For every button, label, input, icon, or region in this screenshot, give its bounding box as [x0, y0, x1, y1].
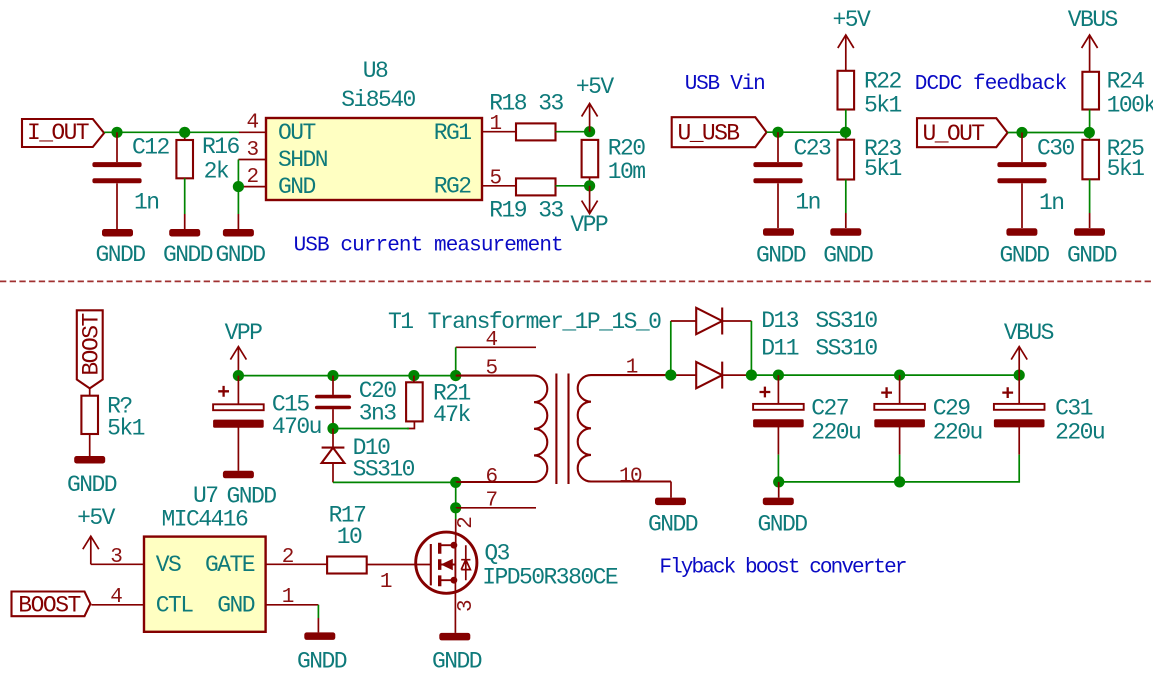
junction D11/D13 cathodes	[746, 370, 757, 381]
label I_OUT	[22, 119, 104, 147]
svg-text:GNDD: GNDD	[823, 242, 873, 268]
svg-text:T1: T1	[388, 309, 413, 335]
svg-text:D13: D13	[761, 308, 799, 334]
transformer T1 core bars	[556, 374, 568, 485]
svg-text:R16: R16	[202, 134, 240, 160]
junction at R21 top	[408, 370, 419, 381]
svg-text:R22: R22	[864, 68, 902, 94]
label U_USB	[672, 117, 767, 147]
junction ground rail at C27	[773, 476, 784, 487]
svg-text:SS310: SS310	[353, 456, 415, 482]
svg-text:+5V: +5V	[77, 505, 116, 531]
svg-text:U_USB: U_USB	[678, 121, 740, 147]
power VPP below R20	[570, 186, 608, 238]
wire VBUS rail	[751, 374, 1019, 376]
resistor R? 5k1	[81, 388, 144, 456]
U8 pin 1 stub	[482, 113, 516, 136]
svg-text:GNDD: GNDD	[95, 242, 145, 268]
junction D11 anode	[665, 370, 676, 381]
capacitor C29 220u	[874, 375, 982, 482]
svg-text:6: 6	[486, 466, 498, 489]
U7 pin 4 wire	[91, 586, 144, 609]
svg-text:C27: C27	[811, 395, 848, 421]
ground GNDD under R23	[823, 228, 873, 268]
svg-text:GNDD: GNDD	[67, 472, 117, 498]
svg-text:CTL: CTL	[156, 593, 194, 619]
svg-text:GNDD: GNDD	[999, 242, 1049, 268]
U7 pin 1 stub	[266, 586, 319, 609]
svg-text:Transformer_1P_1S_0: Transformer_1P_1S_0	[428, 309, 662, 335]
wire C27 to ground	[778, 482, 780, 498]
wire D10 to T1 pin 6 node	[333, 481, 456, 483]
label BOOST (vertical)	[77, 310, 105, 388]
T1 pin 7 stub	[456, 490, 536, 513]
resistor R22 5k1	[838, 68, 902, 132]
capacitor C12	[92, 132, 169, 229]
op-amp U8 Si8540 body	[266, 58, 482, 200]
resistor R16 2k	[176, 132, 239, 229]
wire up to D13	[670, 321, 672, 375]
ground GNDD under C12	[95, 229, 145, 268]
svg-text:2: 2	[455, 517, 478, 529]
svg-text:GNDD: GNDD	[756, 242, 806, 268]
transistor Q3 IPD50R380CE	[416, 532, 618, 593]
power +5V above R20	[576, 74, 615, 132]
wire pin6 node down to pin7/Q3	[455, 482, 457, 507]
svg-text:3: 3	[110, 546, 122, 569]
svg-text:RG2: RG2	[434, 173, 472, 199]
diode D11 SS310	[696, 336, 877, 389]
svg-text:IPD50R380CE: IPD50R380CE	[482, 565, 618, 591]
svg-text:OUT: OUT	[278, 120, 316, 146]
junction at C29	[894, 370, 905, 381]
svg-text:1: 1	[282, 586, 294, 609]
svg-text:+5V: +5V	[576, 74, 615, 100]
wire pin7 node to Q3 drain	[455, 508, 457, 519]
svg-text:U7: U7	[193, 483, 218, 509]
transformer T1 primary winding	[456, 357, 548, 489]
svg-text:3: 3	[247, 139, 259, 162]
ground GNDD under R25	[1067, 228, 1117, 268]
svg-text:RG1: RG1	[434, 120, 472, 146]
svg-text:C30: C30	[1037, 136, 1075, 162]
svg-text:C31: C31	[1055, 395, 1093, 421]
ground GNDD under U8 pin 2	[215, 229, 265, 268]
svg-text:DCDC feedback: DCDC feedback	[915, 73, 1067, 96]
ground GNDD under C15	[223, 471, 276, 510]
resistor R25 5k1	[1082, 133, 1144, 229]
wire U_USB to R22/R23	[767, 131, 846, 133]
svg-text:100k: 100k	[1107, 93, 1153, 119]
svg-text:U8: U8	[363, 58, 388, 84]
U8 pin 5 stub	[482, 167, 516, 190]
svg-text:47k: 47k	[433, 402, 471, 428]
svg-text:C23: C23	[794, 136, 832, 162]
svg-text:GNDD: GNDD	[215, 242, 265, 268]
capacitor C31 220u	[994, 375, 1104, 455]
junction R19/R20/VPP	[584, 180, 595, 191]
wire R17 to Q3 gate	[367, 565, 431, 595]
svg-text:470u: 470u	[272, 414, 321, 440]
svg-text:R18 33: R18 33	[489, 90, 563, 116]
svg-text:5: 5	[490, 167, 502, 190]
wire R18 to R20	[556, 131, 590, 133]
wire C20/R21 bottoms	[333, 428, 409, 430]
svg-text:R19 33: R19 33	[489, 198, 563, 224]
svg-text:Si8540: Si8540	[341, 87, 415, 113]
svg-text:7: 7	[486, 490, 497, 513]
junction ground rail at C29	[894, 476, 905, 487]
junction R24/R25	[1084, 127, 1095, 138]
capacitor C27 220u	[753, 375, 860, 482]
svg-text:2: 2	[282, 546, 294, 569]
junction R22/R23	[840, 127, 851, 138]
wire junction to GNDD	[237, 187, 239, 214]
svg-text:+5V: +5V	[833, 7, 872, 33]
transformer T1 labels	[388, 309, 661, 335]
junction T1 pin7 node	[450, 502, 461, 513]
svg-text:220u: 220u	[933, 419, 982, 445]
svg-text:GNDD: GNDD	[297, 648, 347, 674]
wire U_OUT to R24/R25	[1008, 132, 1090, 134]
svg-text:4: 4	[247, 112, 259, 135]
svg-text:BOOST: BOOST	[78, 313, 104, 375]
junction pin2/pin3 tie	[233, 181, 244, 192]
resistor R19 33	[489, 178, 563, 223]
ground GNDD under C27	[757, 498, 807, 538]
U8 pin 3 stub	[238, 139, 266, 162]
ground GNDD under U7	[297, 632, 347, 674]
svg-text:R20: R20	[608, 136, 646, 162]
svg-text:C29: C29	[933, 395, 971, 421]
svg-text:D11: D11	[761, 336, 799, 362]
svg-text:VBUS: VBUS	[1068, 7, 1118, 33]
svg-text:5k1: 5k1	[107, 416, 145, 442]
wire R19 to R20	[556, 185, 590, 187]
svg-text:BOOST: BOOST	[18, 593, 80, 619]
transformer T1 secondary winding	[578, 357, 671, 489]
Q3 source to ground	[454, 580, 456, 633]
svg-text:1n: 1n	[1039, 190, 1064, 216]
svg-text:SS310: SS310	[815, 336, 877, 362]
ground GNDD under C30	[999, 228, 1049, 268]
diode D13 SS310	[671, 308, 878, 335]
capacitor C30 1n	[997, 133, 1074, 229]
svg-text:220u: 220u	[1055, 419, 1104, 445]
junction at C20 top	[327, 370, 338, 381]
wire T1 pin1 to D11	[671, 374, 696, 376]
svg-text:SS310: SS310	[815, 308, 877, 334]
svg-text:U_OUT: U_OUT	[923, 121, 985, 147]
power +5V above R22	[833, 7, 872, 71]
junction C20/R21/D10	[327, 423, 338, 434]
T1 pin 4 stub	[456, 329, 536, 352]
T1 pin 10 to ground	[670, 482, 672, 498]
resistor R18 33	[489, 90, 563, 140]
junction VPP rail at C15	[233, 370, 244, 381]
junction T1 pin6 node	[450, 477, 461, 488]
capacitor C20 3n3	[315, 376, 396, 429]
svg-text:1: 1	[490, 113, 502, 136]
svg-text:2k: 2k	[204, 159, 229, 185]
svg-text:5: 5	[486, 357, 498, 380]
svg-text:10m: 10m	[608, 159, 646, 185]
svg-text:GNDD: GNDD	[432, 648, 482, 674]
section divider dashed line	[0, 280, 1153, 282]
resistor R20 10m	[582, 136, 646, 186]
resistor R17 10	[327, 503, 367, 574]
svg-text:GNDD: GNDD	[163, 242, 213, 268]
wire SHDN to GND junction	[237, 160, 239, 187]
svg-text:4: 4	[110, 586, 122, 609]
op-amp U7 MIC4416 body	[144, 483, 266, 632]
svg-text:GND: GND	[278, 174, 316, 200]
resistor R23 5k1	[838, 132, 902, 228]
svg-text:VS: VS	[156, 552, 181, 578]
resistor R21 47k	[406, 376, 470, 429]
svg-text:VPP: VPP	[225, 320, 263, 346]
wire U7 GND to ground	[317, 605, 319, 618]
junction at C30	[1016, 127, 1027, 138]
svg-text:I_OUT: I_OUT	[27, 120, 89, 146]
junction R18/R20/+5V	[584, 126, 595, 137]
svg-text:MIC4416: MIC4416	[162, 507, 249, 533]
svg-text:GNDD: GNDD	[648, 511, 698, 537]
power VBUS above C31	[1004, 320, 1054, 375]
svg-text:GND: GND	[217, 593, 255, 619]
wire pin4 to pin5 rail	[455, 347, 457, 375]
U8 pin 4 stub	[239, 112, 266, 135]
svg-text:5k1: 5k1	[864, 93, 902, 119]
ground GNDD under T1 pin 10	[648, 498, 698, 538]
svg-text:3: 3	[455, 600, 478, 612]
ground GNDD under R?	[67, 456, 117, 498]
svg-text:3n3: 3n3	[359, 400, 397, 426]
svg-text:2: 2	[247, 166, 259, 189]
svg-text:1: 1	[380, 571, 392, 594]
junction at I_OUT/C12	[111, 127, 122, 138]
svg-text:Q3: Q3	[484, 540, 509, 566]
wire VPP rail	[238, 375, 455, 377]
svg-text:VPP: VPP	[570, 212, 608, 238]
svg-text:USB Vin: USB Vin	[685, 73, 765, 96]
T1 pin 6 stub	[456, 481, 536, 483]
U7 pin 2 stub	[266, 546, 328, 569]
wire bottom ground rail	[779, 455, 1020, 482]
svg-text:GNDD: GNDD	[757, 511, 807, 537]
power +5V at U7	[77, 505, 116, 564]
svg-text:220u: 220u	[811, 419, 860, 445]
svg-text:VBUS: VBUS	[1004, 320, 1054, 346]
U7 pin 3 wire	[91, 546, 144, 569]
svg-text:1n: 1n	[134, 190, 159, 216]
junction at T1 pin 5	[450, 370, 461, 381]
svg-text:C12: C12	[132, 134, 170, 160]
wire D13 cathode down	[750, 321, 752, 375]
svg-text:GATE: GATE	[205, 552, 255, 578]
svg-text:R24: R24	[1107, 68, 1145, 94]
label BOOST (horizontal)	[12, 592, 91, 619]
svg-text:10: 10	[619, 466, 642, 489]
label U_OUT	[917, 118, 1008, 147]
ground GNDD under Q3	[432, 633, 482, 675]
capacitor C23 1n	[753, 132, 831, 228]
junction at VBUS/C31	[1014, 370, 1025, 381]
svg-text:1n: 1n	[795, 190, 820, 216]
power VPP above C15	[225, 320, 263, 376]
resistor R24 100k	[1082, 68, 1153, 132]
capacitor C15 470u	[213, 376, 321, 471]
power VBUS above R24	[1068, 7, 1118, 72]
svg-text:5k1: 5k1	[864, 156, 902, 182]
wire I_OUT to U8 pin 4	[104, 131, 239, 133]
svg-text:SHDN: SHDN	[278, 147, 327, 173]
ground GNDD under R16	[163, 229, 213, 268]
ground GNDD under C23	[756, 228, 806, 268]
svg-text:4: 4	[486, 329, 498, 352]
U8 pin 2 stub	[238, 166, 266, 189]
svg-text:USB current measurement: USB current measurement	[294, 234, 563, 257]
junction at C27	[773, 370, 784, 381]
svg-text:Flyback boost converter: Flyback boost converter	[659, 557, 905, 580]
svg-text:1: 1	[626, 357, 638, 380]
svg-text:5k1: 5k1	[1107, 156, 1145, 182]
svg-text:GNDD: GNDD	[1067, 242, 1117, 268]
diode D10 SS310	[322, 429, 415, 483]
svg-text:10: 10	[337, 524, 362, 550]
junction at C23	[772, 127, 783, 138]
